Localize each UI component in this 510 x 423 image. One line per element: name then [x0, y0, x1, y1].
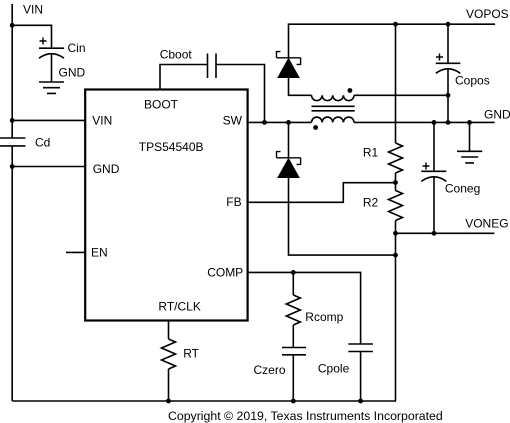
svg-text:RT: RT: [183, 347, 199, 361]
wire VIN rail to VIN pin: [12, 119, 85, 121]
node junction VIN/Cin: [10, 23, 15, 28]
ground symbol (Cin): [39, 82, 64, 93]
node junction VOPOS/Copos: [446, 22, 451, 27]
svg-text:R1: R1: [363, 146, 379, 160]
node junction D2 line / divider vertical: [393, 253, 398, 258]
node junction VONEG/R2: [393, 231, 398, 236]
wire VOPOS to Copos: [447, 24, 449, 63]
svg-text:SW: SW: [223, 114, 243, 128]
label Rcomp: [305, 310, 343, 324]
inductor T1 secondary winding: [312, 117, 355, 122]
capacitor Cin: [39, 48, 64, 58]
svg-text:FB: FB: [226, 195, 241, 209]
svg-text:Czero: Czero: [254, 363, 286, 377]
wire D2 anode down and right: [289, 178, 396, 256]
wire Czero to bottom rail: [292, 355, 294, 401]
node junction FB divider: [393, 180, 398, 185]
wire Copos to GND line: [447, 69, 449, 123]
wire Cboot to SW node: [216, 65, 265, 123]
node junction Copos/GND: [446, 120, 451, 125]
capacitor Cd: [0, 138, 25, 146]
svg-text:VOPOS: VOPOS: [466, 7, 509, 21]
ground symbol (right): [457, 151, 482, 163]
label RT: [183, 347, 199, 361]
capacitor Coneg: [421, 171, 446, 181]
wire VOPOS to R1 (divider vertical): [395, 24, 397, 143]
wire EN stub: [66, 251, 85, 253]
svg-text:VIN: VIN: [23, 3, 43, 17]
label Cboot: [160, 47, 193, 61]
label Coneg: [445, 181, 480, 195]
node VONEG label: [465, 216, 508, 230]
label Cin: [68, 41, 86, 55]
svg-text:Rcomp: Rcomp: [305, 310, 343, 324]
wire bottom rail: [12, 400, 396, 402]
capacitor Cpole: [348, 344, 373, 352]
inductor T1 primary winding: [312, 95, 355, 100]
pin VIN label: [92, 114, 112, 128]
svg-text:COMP: COMP: [207, 266, 243, 280]
diode D1 triangle: [278, 59, 299, 78]
node junction Czero/rail: [291, 399, 296, 404]
wire left rail below Cd: [11, 146, 13, 401]
node VOPOS label: [466, 7, 509, 21]
capacitor Czero: [282, 348, 306, 355]
wire VONEG line: [396, 232, 495, 234]
node junction Copos/winding: [446, 93, 451, 98]
svg-text:GND: GND: [484, 108, 510, 122]
label GND (Cin ground): [59, 66, 86, 80]
label R2: [363, 196, 379, 210]
wire Cin to ground: [51, 54, 53, 82]
pin EN label: [91, 246, 108, 260]
svg-text:Cboot: Cboot: [160, 47, 193, 61]
svg-text:R2: R2: [363, 196, 379, 210]
diode D2 cathode lead: [288, 122, 290, 157]
wire COMP to Rcomp: [292, 272, 294, 295]
label Czero: [254, 363, 286, 377]
node junction GND pin: [10, 164, 15, 169]
pin GND label: [93, 162, 120, 176]
svg-text:GND: GND: [59, 66, 86, 80]
wire RT to bottom rail: [168, 369, 170, 401]
wire Cpole to bottom rail: [360, 352, 362, 402]
svg-text:BOOT: BOOT: [144, 98, 179, 112]
inductor T1 secondary polarity dot: [313, 125, 318, 130]
pin COMP label: [207, 266, 243, 280]
node junction GND/Coneg: [432, 120, 437, 125]
wire Coneg to VONEG line: [433, 177, 435, 234]
svg-text:VONEG: VONEG: [465, 216, 508, 230]
wire COMP pin to Cpole: [248, 272, 361, 344]
node junction VIN pin: [10, 118, 15, 123]
ground symbol (right) drop wire: [469, 122, 471, 151]
capacitor Cin plus sign: [40, 38, 47, 45]
wire D1 anode to primary winding: [289, 78, 312, 96]
diode D2 schottky cathode bar: [277, 152, 301, 165]
pin BOOT label: [144, 98, 179, 112]
svg-text:RT/CLK: RT/CLK: [158, 300, 200, 314]
wire VIN rail vertical (left, above Cd): [11, 4, 13, 138]
wire BOOT pin to Cboot: [160, 65, 208, 90]
capacitor Copos: [436, 63, 461, 73]
wire R1 to R2: [395, 173, 397, 191]
node GND label (right): [484, 108, 510, 122]
wire Rcomp to Czero: [292, 325, 294, 348]
node junction RT/rail: [166, 399, 171, 404]
label R1: [363, 146, 379, 160]
wire R2 bottom to bottom rail: [395, 221, 397, 402]
capacitor Cboot: [208, 54, 217, 79]
svg-text:Cpole: Cpole: [318, 361, 350, 375]
inductor T1 core: [312, 106, 355, 111]
pin RT/CLK label: [158, 300, 200, 314]
wire RT/CLK pin to RT: [168, 321, 170, 339]
wire primary winding to Copos: [354, 94, 448, 96]
wire FB pin to divider: [248, 183, 396, 203]
pin SW label: [223, 114, 243, 128]
wire rail to GND pin: [12, 166, 85, 168]
capacitor Coneg plus sign: [423, 163, 430, 170]
resistor R2: [389, 191, 403, 221]
capacitor Copos plus sign: [436, 54, 443, 61]
node junction ground drop: [467, 120, 472, 125]
diode D2 triangle: [278, 159, 299, 178]
wire SW pin to winding: [248, 121, 312, 123]
node VIN label: [23, 3, 43, 17]
svg-text:TPS54540B: TPS54540B: [139, 140, 204, 154]
node junction Coneg/VONEG: [432, 231, 437, 236]
svg-text:Cd: Cd: [35, 136, 50, 150]
label TPS54540B: [139, 140, 204, 154]
diode D1 cathode lead and VOPOS line: [289, 24, 496, 58]
node junction COMP/Rcomp: [291, 270, 296, 275]
diode D1 schottky cathode bar: [277, 52, 301, 65]
op-amp U1 TPS54540B box: [85, 90, 247, 321]
node junction Cpole/rail: [358, 399, 363, 404]
svg-text:GND: GND: [93, 162, 120, 176]
svg-text:VIN: VIN: [92, 114, 112, 128]
svg-text:EN: EN: [91, 246, 108, 260]
resistor R1: [389, 143, 403, 173]
svg-text:Copyright © 2019, Texas Instru: Copyright © 2019, Texas Instruments Inco…: [168, 409, 443, 423]
node junction VOPOS/R1: [393, 22, 398, 27]
svg-text:Cin: Cin: [68, 41, 86, 55]
node junction SW/D2: [286, 120, 291, 125]
pin FB label: [226, 195, 241, 209]
label Cd: [35, 136, 50, 150]
node junction Cboot/SW: [262, 120, 267, 125]
wire GND line to Coneg: [433, 122, 435, 171]
label Cpole: [318, 361, 350, 375]
svg-text:Coneg: Coneg: [445, 181, 480, 195]
wire winding to GND (right rail): [354, 121, 495, 123]
wire VIN rail to Cin branch: [12, 25, 51, 48]
resistor Rcomp: [286, 295, 300, 325]
label Copos: [455, 73, 490, 87]
label copyright: [168, 409, 443, 423]
resistor RT: [162, 339, 176, 369]
svg-text:Copos: Copos: [455, 73, 490, 87]
inductor T1 primary polarity dot: [348, 88, 353, 93]
